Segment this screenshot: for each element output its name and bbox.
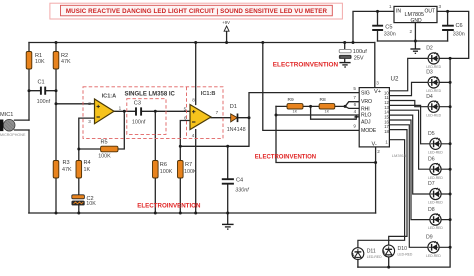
svg-text:D5: D5 xyxy=(428,131,435,137)
svg-text:GND: GND xyxy=(411,18,423,24)
svg-text:D7: D7 xyxy=(428,181,435,187)
svg-text:7: 7 xyxy=(353,95,356,100)
svg-text:9: 9 xyxy=(353,123,356,128)
svg-text:U2: U2 xyxy=(391,76,399,83)
svg-text:3: 3 xyxy=(439,4,442,9)
svg-text:R5: R5 xyxy=(101,139,108,145)
svg-text:2: 2 xyxy=(377,149,380,154)
svg-text:MICROPHONE: MICROPHONE xyxy=(0,133,26,137)
svg-text:R6: R6 xyxy=(160,162,167,168)
svg-text:D6: D6 xyxy=(428,156,435,162)
svg-text:330n: 330n xyxy=(384,31,396,37)
svg-text:D10: D10 xyxy=(398,246,408,252)
svg-text:C4: C4 xyxy=(236,178,243,184)
svg-text:47K: 47K xyxy=(62,167,72,173)
svg-text:MODE: MODE xyxy=(361,128,377,134)
svg-text:8: 8 xyxy=(192,97,195,102)
svg-text:5: 5 xyxy=(184,107,187,112)
svg-text:C3: C3 xyxy=(134,100,141,106)
svg-text:D1: D1 xyxy=(230,104,237,110)
svg-text:1K: 1K xyxy=(325,110,330,114)
svg-text:R7: R7 xyxy=(185,162,192,168)
svg-text:R3: R3 xyxy=(63,160,70,166)
svg-text:IC1:A: IC1:A xyxy=(102,93,117,99)
svg-text:6: 6 xyxy=(354,102,357,107)
svg-text:C1: C1 xyxy=(38,79,45,85)
svg-text:100uf: 100uf xyxy=(353,49,367,55)
svg-text:IN: IN xyxy=(396,9,401,15)
svg-text:6: 6 xyxy=(184,116,187,121)
svg-text:LM3915: LM3915 xyxy=(392,153,407,158)
svg-text:D11: D11 xyxy=(367,248,376,254)
svg-text:LED-RED: LED-RED xyxy=(428,226,443,230)
svg-text:LED-RED: LED-RED xyxy=(426,65,441,69)
svg-text:D2: D2 xyxy=(426,46,433,52)
svg-text:2: 2 xyxy=(88,101,91,106)
svg-text:IC1:B: IC1:B xyxy=(201,91,216,97)
svg-text:LED-RED: LED-RED xyxy=(428,176,443,180)
svg-text:D3: D3 xyxy=(426,70,433,76)
svg-text:18: 18 xyxy=(384,129,389,134)
svg-text:8: 8 xyxy=(354,115,357,120)
svg-text:25V: 25V xyxy=(354,55,364,61)
svg-text:D9: D9 xyxy=(426,235,433,241)
svg-text:1K: 1K xyxy=(84,167,91,173)
svg-text:MIC1: MIC1 xyxy=(0,112,13,118)
svg-text:10K: 10K xyxy=(35,59,45,65)
svg-text:330nf: 330nf xyxy=(235,187,249,193)
svg-text:LED-RED: LED-RED xyxy=(398,252,413,256)
svg-text:7: 7 xyxy=(216,110,219,115)
svg-text:ELECTROINVENTION: ELECTROINVENTION xyxy=(255,155,316,161)
svg-text:LED-RED: LED-RED xyxy=(426,89,441,93)
svg-text:RLO: RLO xyxy=(361,113,371,119)
svg-text:3: 3 xyxy=(376,81,379,86)
svg-text:ELECTROINVENTION: ELECTROINVENTION xyxy=(137,203,201,210)
svg-text:LED-RED: LED-RED xyxy=(426,254,441,258)
svg-text:LED-RED: LED-RED xyxy=(367,255,382,259)
svg-text:V-: V- xyxy=(372,142,377,148)
svg-text:D8: D8 xyxy=(428,207,435,213)
svg-text:C6: C6 xyxy=(456,23,463,29)
svg-text:1: 1 xyxy=(389,4,392,9)
svg-text:MUSIC REACTIVE DANCING LED LIG: MUSIC REACTIVE DANCING LED LIGHT CIRCUIT… xyxy=(66,8,328,15)
svg-text:100nf: 100nf xyxy=(37,99,51,105)
svg-text:R4: R4 xyxy=(84,160,91,166)
svg-text:SINGLE LM358 IC: SINGLE LM358 IC xyxy=(125,91,176,97)
svg-text:V+: V+ xyxy=(374,89,381,95)
svg-text:VRO: VRO xyxy=(361,99,372,105)
svg-text:330n: 330n xyxy=(453,31,465,37)
svg-text:100K: 100K xyxy=(160,169,173,175)
svg-text:100nf: 100nf xyxy=(132,119,146,125)
svg-text:3: 3 xyxy=(88,119,91,124)
svg-text:R9: R9 xyxy=(288,97,294,103)
svg-text:R8: R8 xyxy=(320,97,326,103)
svg-text:LED-RED: LED-RED xyxy=(428,150,443,154)
svg-text:+9V: +9V xyxy=(222,20,230,25)
svg-text:2: 2 xyxy=(410,29,413,34)
svg-text:4: 4 xyxy=(354,109,357,114)
svg-text:1N4148: 1N4148 xyxy=(227,127,246,133)
svg-text:LM7805: LM7805 xyxy=(405,12,424,18)
svg-text:100K: 100K xyxy=(184,169,197,175)
svg-text:RHI: RHI xyxy=(361,106,370,112)
svg-text:OUT: OUT xyxy=(425,9,436,15)
svg-text:47K: 47K xyxy=(61,59,71,65)
svg-text:100K: 100K xyxy=(98,153,111,159)
svg-text:ADJ: ADJ xyxy=(361,120,371,126)
svg-text:4: 4 xyxy=(192,133,195,138)
svg-text:10K: 10K xyxy=(86,201,96,207)
svg-text:SIG: SIG xyxy=(361,91,370,97)
svg-text:LED-RED: LED-RED xyxy=(426,113,441,117)
svg-text:C5: C5 xyxy=(385,24,392,30)
svg-text:5: 5 xyxy=(353,86,356,91)
svg-text:D4: D4 xyxy=(426,94,433,100)
svg-text:LED-RED: LED-RED xyxy=(428,201,443,205)
svg-text:ELECTROINVENTION: ELECTROINVENTION xyxy=(273,62,339,69)
svg-text:1K: 1K xyxy=(293,110,298,114)
svg-text:1: 1 xyxy=(119,106,122,111)
